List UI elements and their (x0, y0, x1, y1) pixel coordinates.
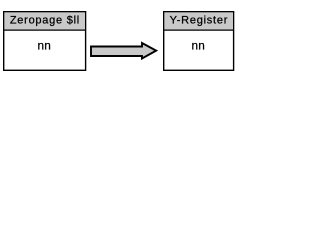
svg-text:nn: nn (38, 39, 52, 53)
svg-text:Zeropage $ll: Zeropage $ll (10, 14, 80, 26)
svg-text:Y-Register: Y-Register (170, 14, 228, 26)
svg-text:nn: nn (192, 39, 206, 53)
